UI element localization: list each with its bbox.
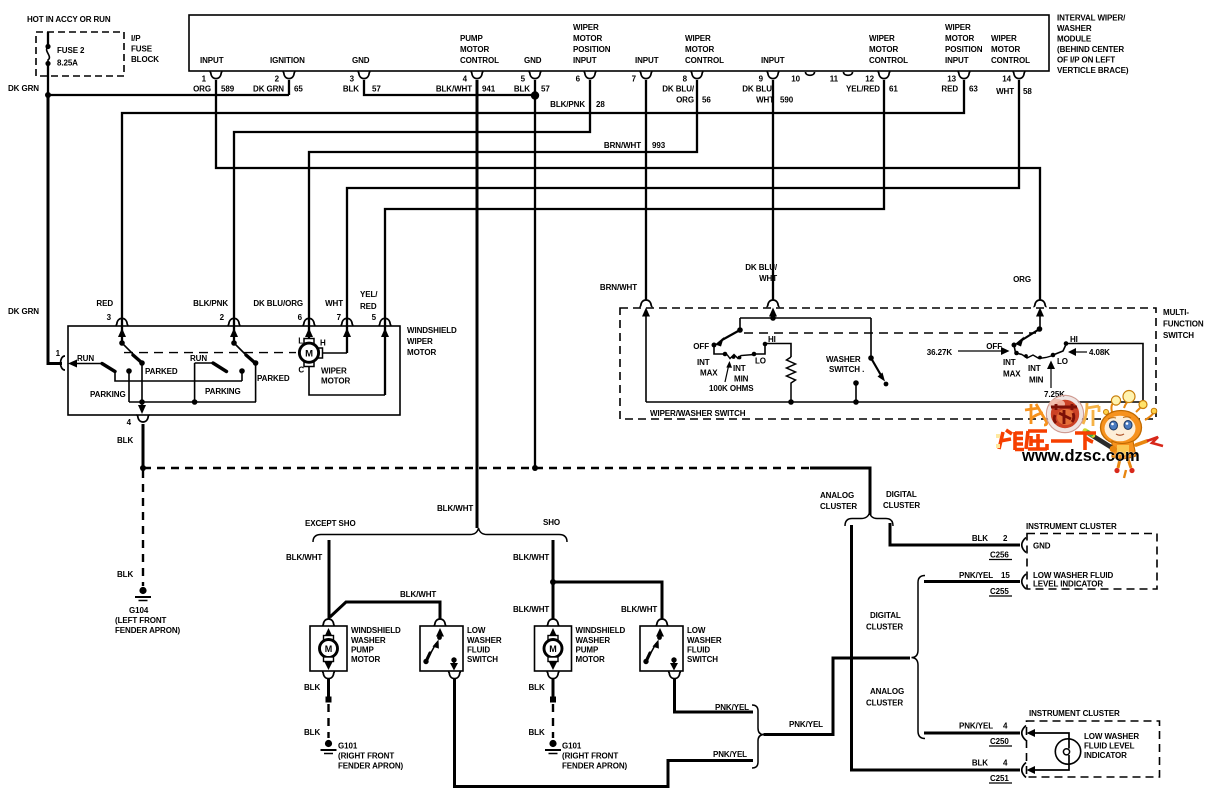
svg-text:56: 56 — [702, 96, 711, 105]
wire parking1 contact down to rail — [128, 371, 130, 402]
svg-text:INPUT: INPUT — [945, 56, 969, 65]
pump 2 bottom connector — [546, 672, 559, 679]
svg-text:3: 3 — [107, 313, 112, 322]
fluid switch 1 bottom connector — [448, 672, 461, 679]
wiper motor M symbol — [298, 337, 326, 375]
mascot mouth — [1116, 434, 1124, 435]
wire motor pin 4 BLK down — [142, 424, 145, 468]
wire MFS left pin down to switch rail — [645, 314, 647, 402]
left INT MAX contact — [723, 352, 728, 357]
svg-text:FENDER APRON): FENDER APRON) — [562, 762, 628, 771]
park switch 2 parked contact — [253, 360, 259, 366]
svg-text:PUMP: PUMP — [460, 34, 483, 43]
ground rail inside motor box — [129, 401, 256, 403]
wire BLK/WHT left branch (except SHO) — [328, 540, 331, 619]
fluid switch 2 exit arrow — [673, 662, 675, 665]
svg-text:OFF: OFF — [986, 342, 1002, 351]
left HI contact — [763, 342, 768, 347]
mascot eyes — [1110, 421, 1118, 430]
svg-text:MIN: MIN — [734, 375, 749, 384]
svg-text:SWITCH: SWITCH — [687, 655, 718, 664]
right contact track — [1014, 345, 1022, 355]
svg-text:BLK/WHT: BLK/WHT — [513, 605, 549, 614]
svg-text:ORG: ORG — [193, 85, 211, 94]
ground G104 symbol — [135, 587, 151, 601]
svg-text:C: C — [298, 366, 304, 375]
svg-text:MOTOR: MOTOR — [407, 348, 436, 357]
svg-text:FUSE: FUSE — [131, 45, 153, 54]
svg-text:LEVEL INDICATOR: LEVEL INDICATOR — [1033, 580, 1103, 589]
svg-text:MAX: MAX — [1003, 370, 1021, 379]
svg-text:CONTROL: CONTROL — [685, 56, 724, 65]
svg-text:IGNITION: IGNITION — [270, 56, 305, 65]
low washer fluid switch 1 box — [420, 626, 463, 671]
svg-text:LO: LO — [1057, 357, 1068, 366]
svg-text:CONTROL: CONTROL — [991, 56, 1030, 65]
svg-text:58: 58 — [1023, 87, 1032, 96]
ground G101 symbol (pump 2) — [545, 740, 561, 754]
svg-text:8: 8 — [683, 75, 688, 84]
svg-text:ORG: ORG — [1013, 275, 1031, 284]
wire PNK/YEL merged to cluster area — [764, 658, 911, 735]
svg-text:M: M — [305, 349, 313, 360]
wire blade1 to parking rail — [115, 372, 242, 382]
wire fluid switch 2 PNK/YEL route — [675, 679, 754, 712]
watermark: zhao xin pian (find chips) text — [1025, 404, 1047, 425]
svg-text:WIPER: WIPER — [321, 367, 347, 376]
park switch 1 parked contact — [139, 360, 145, 366]
watermark: weiku yixia (red) text — [999, 430, 1096, 450]
svg-text:12: 12 — [865, 75, 874, 84]
svg-text:DK BLU/: DK BLU/ — [662, 85, 695, 94]
right LO contact — [1051, 353, 1056, 358]
wire MFS middle pin to wiper switch feed bar — [772, 314, 774, 318]
wire module pin 7 BRN/WHT down to multi-function switch — [645, 80, 647, 300]
svg-text:8.25A: 8.25A — [57, 59, 78, 68]
motor pin 1 connector (left side) — [61, 356, 66, 370]
svg-text:WASHER: WASHER — [1057, 24, 1092, 33]
run blade switch 2 — [213, 363, 227, 372]
wire parked2 to rail right end — [255, 363, 257, 402]
svg-text:INPUT: INPUT — [635, 56, 659, 65]
svg-text:DK BLU/ORG: DK BLU/ORG — [253, 299, 303, 308]
svg-text:INDICATOR: INDICATOR — [1084, 751, 1127, 760]
junction washer switch to rail — [853, 399, 859, 405]
svg-text:PUMP: PUMP — [351, 646, 374, 655]
svg-text:GND: GND — [524, 56, 542, 65]
mascot antennae — [1111, 400, 1154, 420]
svg-text:WHT: WHT — [325, 299, 343, 308]
svg-text:WHT: WHT — [756, 96, 774, 105]
svg-text:BLK: BLK — [304, 683, 320, 692]
svg-text:WASHER: WASHER — [467, 636, 502, 645]
svg-text:INT: INT — [733, 364, 746, 373]
run blade switch 1 — [102, 364, 115, 372]
svg-text:100K OHMS: 100K OHMS — [709, 384, 754, 393]
svg-text:WINDSHIELD: WINDSHIELD — [407, 326, 457, 335]
svg-text:PNK/YEL: PNK/YEL — [959, 571, 993, 580]
svg-text:MOTOR: MOTOR — [351, 655, 380, 664]
park switch 1 arm — [122, 343, 137, 358]
svg-text:PNK/YEL: PNK/YEL — [959, 722, 993, 731]
wire DK GRN fuse to module pin 2 — [48, 80, 289, 95]
svg-text:SWITCH: SWITCH — [1163, 331, 1194, 340]
svg-text:INT: INT — [697, 358, 710, 367]
washer switch feed — [870, 318, 872, 358]
wire module pin 8 DK BLU/ORG rail to motor pin 6 — [309, 80, 697, 339]
junction SHO branch node — [550, 579, 556, 585]
junction feed bar node — [770, 315, 776, 321]
junction pin5 gnd on ground net — [532, 465, 538, 471]
svg-text:FUNCTION: FUNCTION — [1163, 320, 1204, 329]
wire BLK analog branch (long drop to C251) — [852, 525, 1021, 770]
svg-text:LOW WASHER: LOW WASHER — [1084, 732, 1139, 741]
module pin wire color + circuit labels — [193, 85, 1032, 110]
svg-text:G104: G104 — [129, 606, 149, 615]
park switch 2 pivot — [231, 340, 237, 346]
svg-text:WIPER: WIPER — [869, 34, 895, 43]
svg-text:FENDER APRON): FENDER APRON) — [115, 626, 181, 635]
svg-text:4: 4 — [127, 418, 132, 427]
svg-text:61: 61 — [889, 85, 898, 94]
svg-text:BLK: BLK — [529, 683, 545, 692]
pump 1 exit arrow — [325, 662, 333, 670]
mascot legs — [1118, 459, 1131, 468]
svg-text:MULTI-: MULTI- — [1163, 308, 1189, 317]
svg-text:WIPER/WASHER SWITCH: WIPER/WASHER SWITCH — [650, 409, 746, 418]
svg-text:EXCEPT SHO: EXCEPT SHO — [305, 519, 356, 528]
svg-text:HOT IN ACCY OR RUN: HOT IN ACCY OR RUN — [27, 15, 111, 24]
pump motor 1 symbol — [320, 636, 338, 664]
mascot right arm with red flag — [1136, 441, 1147, 445]
svg-text:11: 11 — [830, 75, 839, 84]
svg-text:HI: HI — [1070, 335, 1078, 344]
washer pump motor 2 connector — [546, 619, 559, 626]
left LO contact — [752, 352, 757, 357]
low washer fluid switch 2 box — [640, 626, 683, 671]
svg-text:PNK/YEL: PNK/YEL — [715, 703, 749, 712]
svg-text:1: 1 — [56, 349, 61, 358]
wire BLK digital branch to C256 — [890, 523, 1020, 545]
svg-text:6: 6 — [298, 313, 303, 322]
windshield wiper motor box — [68, 326, 400, 415]
svg-text:BLK/WHT: BLK/WHT — [436, 85, 472, 94]
svg-text:WINDSHIELD: WINDSHIELD — [576, 626, 626, 635]
svg-text:PARKED: PARKED — [257, 374, 290, 383]
svg-text:993: 993 — [652, 141, 666, 150]
svg-text:BLK: BLK — [343, 85, 359, 94]
svg-text:4: 4 — [1003, 722, 1008, 731]
svg-text:L: L — [298, 337, 303, 346]
svg-text:BLK/WHT: BLK/WHT — [286, 553, 322, 562]
junction resistor to rail — [788, 399, 794, 405]
MFS pin connectors — [639, 300, 1046, 307]
svg-text:MOTOR: MOTOR — [576, 655, 605, 664]
brace PNK/YEL merge — [752, 705, 764, 768]
svg-text:I/P: I/P — [131, 34, 141, 43]
wire module pin 12 YEL/RED rail to motor pin 5 — [385, 80, 884, 395]
svg-text:PARKING: PARKING — [90, 390, 126, 399]
svg-text:MODULE: MODULE — [1057, 35, 1092, 44]
motor pin connectors (arcs above box top) — [115, 318, 391, 325]
svg-text:RUN: RUN — [190, 354, 207, 363]
svg-text:WINDSHIELD: WINDSHIELD — [351, 626, 401, 635]
svg-text:MOTOR: MOTOR — [945, 34, 974, 43]
svg-text:BLK/PNK: BLK/PNK — [193, 299, 228, 308]
svg-text:C250: C250 — [990, 737, 1009, 746]
wire pump 1 dashed to ground — [327, 704, 329, 738]
wire right HI to rail — [1066, 344, 1143, 403]
pump 2 exit arrow — [549, 662, 557, 670]
svg-text:INT: INT — [1003, 358, 1016, 367]
fluid switch 1 contacts — [437, 635, 442, 640]
svg-text:941: 941 — [482, 85, 496, 94]
mascot head — [1101, 411, 1142, 445]
svg-text:57: 57 — [541, 85, 550, 94]
svg-text:CLUSTER: CLUSTER — [820, 502, 857, 511]
right 100K pot element — [1022, 355, 1053, 359]
svg-text:BLK: BLK — [117, 570, 133, 579]
wire branch to fluid switch 1 — [330, 602, 440, 619]
pump 1 bottom connector — [322, 672, 335, 679]
washer switch top contact — [868, 355, 874, 361]
fluid switch 2 entry arrow — [656, 628, 664, 637]
svg-text:14: 14 — [1002, 75, 1011, 84]
svg-text:MOTOR: MOTOR — [321, 377, 350, 386]
svg-text:WIPER: WIPER — [991, 34, 1017, 43]
svg-text:MOTOR: MOTOR — [869, 45, 898, 54]
svg-text:HI: HI — [768, 335, 776, 344]
wire HI to resistor — [765, 344, 791, 358]
parking contact switch 2 — [239, 368, 245, 374]
junction run2 on rail — [192, 399, 198, 405]
svg-text:YEL/: YEL/ — [360, 290, 378, 299]
wire C250 to indicator bulb — [1033, 733, 1069, 740]
interval wiper/washer module box — [189, 15, 1049, 71]
wire G104 dashed drop — [142, 470, 144, 586]
svg-text:PNK/YEL: PNK/YEL — [789, 720, 823, 729]
fluid switch 1 exit arrow — [453, 662, 455, 665]
svg-text:DK GRN: DK GRN — [8, 307, 39, 316]
svg-text:63: 63 — [969, 85, 978, 94]
connector C256 — [1022, 538, 1026, 553]
motor pin wire color labels — [96, 290, 378, 311]
mascot body — [1112, 441, 1136, 459]
svg-text:BLK: BLK — [972, 534, 988, 543]
svg-text:C251: C251 — [990, 774, 1009, 783]
park switch 2 arm — [234, 343, 249, 358]
svg-text:CLUSTER: CLUSTER — [883, 501, 920, 510]
mascot left arm holding telescope pen — [1085, 431, 1114, 449]
svg-text:POSITION: POSITION — [945, 45, 983, 54]
wire bulb to C251 — [1033, 764, 1069, 770]
svg-text:www.dzsc.com: www.dzsc.com — [1021, 447, 1140, 465]
svg-text:BLK/WHT: BLK/WHT — [621, 605, 657, 614]
svg-text:9: 9 — [759, 75, 764, 84]
svg-text:RED: RED — [360, 302, 377, 311]
svg-text:4: 4 — [1003, 759, 1008, 768]
svg-text:WHT: WHT — [996, 87, 1014, 96]
module pin number labels — [202, 75, 1012, 84]
svg-text:DK BLU/: DK BLU/ — [745, 263, 778, 272]
I/P fuse block dashed box — [36, 32, 124, 76]
svg-text:PNK/YEL: PNK/YEL — [713, 750, 747, 759]
wire pump 2 BLK down — [552, 679, 555, 697]
svg-text:BLK: BLK — [304, 728, 320, 737]
svg-text:BRN/WHT: BRN/WHT — [604, 141, 641, 150]
svg-text:PARKED: PARKED — [145, 367, 178, 376]
wire branch to fluid switch 2 — [553, 582, 662, 619]
svg-text:FLUID: FLUID — [687, 646, 710, 655]
parking contact switch 1 — [126, 368, 132, 374]
motor pin number labels — [107, 313, 377, 322]
svg-text:MAX: MAX — [700, 369, 718, 378]
pump 1 entry arrow — [325, 628, 333, 637]
fluid switch 2 contacts — [657, 635, 662, 640]
svg-text:LO: LO — [755, 357, 766, 366]
svg-text:C256: C256 — [990, 551, 1009, 560]
left rotary pivot — [737, 327, 743, 333]
instrument cluster (digital) dashed box — [1027, 534, 1157, 590]
svg-text:BRN/WHT: BRN/WHT — [600, 283, 637, 292]
svg-text:BLK/WHT: BLK/WHT — [400, 590, 436, 599]
svg-text:WASHER: WASHER — [687, 636, 722, 645]
svg-text:65: 65 — [294, 85, 303, 94]
svg-text:10: 10 — [791, 75, 800, 84]
svg-text:OFF: OFF — [693, 342, 709, 351]
connector C251 — [1022, 763, 1026, 778]
svg-text:SWITCH .: SWITCH . — [829, 365, 864, 374]
svg-text:M: M — [325, 644, 332, 654]
wire module pin 14 WHT rail to motor pin 7 — [347, 80, 1019, 353]
fluid switch 1 entry arrow — [436, 628, 444, 637]
svg-text:CONTROL: CONTROL — [869, 56, 908, 65]
svg-text:(RIGHT FRONT: (RIGHT FRONT — [562, 752, 618, 761]
svg-text:WIPER: WIPER — [945, 23, 971, 32]
svg-text:1: 1 — [202, 75, 207, 84]
wire module pin 6 BLK/PNK rail to motor pin 2 — [234, 80, 590, 343]
svg-text:VERTICLE BRACE): VERTICLE BRACE) — [1057, 66, 1129, 75]
wiper/washer switch bottom rail — [646, 401, 1143, 403]
svg-text:WASHER: WASHER — [351, 636, 386, 645]
svg-text:MOTOR: MOTOR — [460, 45, 489, 54]
left OFF contact — [712, 343, 717, 348]
splice pump 1 — [326, 697, 332, 703]
wire module pin 4 BLK/WHT pump motor control down — [476, 80, 479, 528]
svg-text:MOTOR: MOTOR — [991, 45, 1020, 54]
svg-text:BLK: BLK — [972, 759, 988, 768]
svg-text:WIPER: WIPER — [407, 337, 433, 346]
wire BLK/WHT right branch (SHO) — [552, 540, 555, 619]
fluid switch 2 bottom connector — [668, 672, 681, 679]
splice pump 2 — [550, 697, 556, 703]
left 100K pot element — [727, 355, 754, 359]
mechanical linkage dashed (rotary switches) — [744, 332, 1036, 334]
junction pin4 node on rail — [139, 399, 145, 405]
junction fuse output node — [45, 92, 51, 98]
pin 4 connector below box — [136, 415, 149, 422]
svg-text:590: 590 — [780, 96, 794, 105]
svg-text:H: H — [320, 339, 326, 348]
svg-text:6: 6 — [576, 75, 581, 84]
svg-text:(LEFT FRONT: (LEFT FRONT — [115, 616, 167, 625]
svg-text:INPUT: INPUT — [573, 56, 597, 65]
C250 entry arrow — [1027, 729, 1036, 737]
washer pump motor 1 connector — [322, 619, 335, 626]
svg-text:RUN: RUN — [77, 354, 94, 363]
svg-text:INT: INT — [1028, 364, 1041, 373]
svg-text:FENDER APRON): FENDER APRON) — [338, 762, 404, 771]
wire motor H terminal to pin 7 — [323, 352, 347, 354]
svg-text:DK GRN: DK GRN — [253, 85, 284, 94]
junction ground net left node — [140, 465, 146, 471]
low washer fluid switch 2 connector — [655, 619, 668, 626]
svg-text:DK BLU/: DK BLU/ — [742, 85, 775, 94]
svg-text:WIPER: WIPER — [573, 23, 599, 32]
svg-text:LOW: LOW — [467, 626, 486, 635]
svg-text:SHO: SHO — [543, 518, 560, 527]
wire module pin 5 GND down to ground net — [534, 80, 536, 468]
C251 entry arrow — [1027, 766, 1036, 774]
multi-function switch dashed box — [620, 308, 1156, 419]
svg-text:LOW: LOW — [687, 626, 706, 635]
left rotary arm — [722, 330, 740, 340]
MFS pin entry arrows — [642, 308, 1044, 317]
right LO to HI link — [1053, 345, 1066, 356]
wire PNK/YEL to C250 — [924, 732, 1020, 735]
wire ORG pin down to right rotary pivot — [1039, 314, 1041, 329]
svg-text:RED: RED — [941, 85, 958, 94]
low washer fluid switch 1 connector — [433, 619, 446, 626]
washer switch arm — [871, 358, 882, 377]
svg-text:7: 7 — [632, 75, 637, 84]
wire DK GRN down left side to wiper motor pin 1 — [48, 95, 62, 364]
svg-text:INTERVAL WIPER/: INTERVAL WIPER/ — [1057, 14, 1126, 23]
connector C255 — [1022, 574, 1026, 589]
wire module pin 9 DK BLU/WHT down to multi-function switch — [772, 80, 774, 300]
brace analog/digital split — [845, 513, 893, 527]
svg-text:2: 2 — [220, 313, 225, 322]
motor pin 1 entry arrow — [68, 360, 77, 368]
svg-text:28: 28 — [596, 100, 605, 109]
svg-text:OF I/P ON LEFT: OF I/P ON LEFT — [1057, 56, 1115, 65]
wire parked1 contact to ground rail — [141, 363, 143, 402]
svg-text:YEL/RED: YEL/RED — [846, 85, 880, 94]
svg-text:SWITCH: SWITCH — [467, 655, 498, 664]
svg-text:WIPER: WIPER — [685, 34, 711, 43]
right rotary pivot — [1037, 326, 1043, 332]
pin 4 exit arrow — [141, 402, 143, 407]
svg-text:PUMP: PUMP — [576, 646, 599, 655]
windshield washer pump motor 2 box — [535, 626, 572, 671]
svg-text:36.27K: 36.27K — [927, 348, 953, 357]
wire pin1 to run blade 1 — [76, 363, 102, 365]
wire module pin 13 RED rail to motor pin 3 — [122, 80, 964, 343]
svg-text:PARKING: PARKING — [205, 387, 241, 396]
svg-text:BLK: BLK — [514, 85, 530, 94]
svg-text:WASHER: WASHER — [826, 355, 861, 364]
wire motor C terminal to pin 5 — [309, 367, 385, 395]
svg-text:C255: C255 — [990, 587, 1009, 596]
svg-text:DIGITAL: DIGITAL — [870, 611, 901, 620]
windshield washer pump motor 1 box — [310, 626, 347, 671]
svg-text:(BEHIND CENTER: (BEHIND CENTER — [1057, 45, 1124, 54]
svg-text:G101: G101 — [338, 742, 358, 751]
low washer fluid level indicator bulb — [1055, 739, 1080, 764]
ground net solid segment to cluster drop — [810, 467, 870, 470]
right HI contact — [1064, 341, 1069, 346]
brace digital/analog PNK/YEL split — [912, 576, 926, 739]
